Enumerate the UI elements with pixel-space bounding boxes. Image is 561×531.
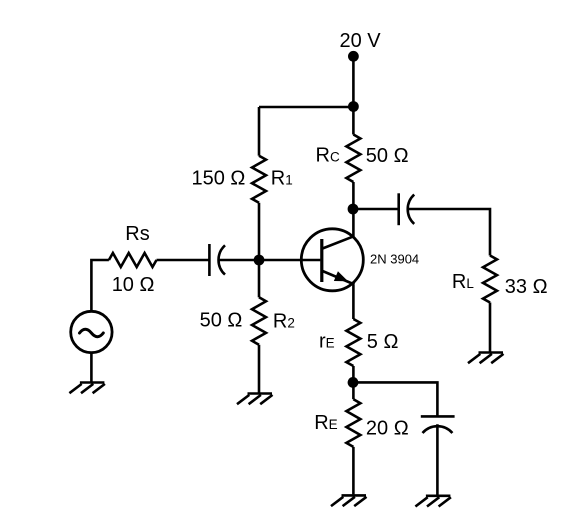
capacitor input coupling bbox=[209, 244, 225, 276]
resistor Rs bbox=[109, 253, 157, 267]
wire emitter node to bypass capacitor bbox=[353, 382, 437, 416]
ground bypass bbox=[415, 496, 451, 507]
source VS AC signal generator bbox=[71, 311, 112, 352]
svg-text:20 V: 20 V bbox=[340, 30, 382, 52]
wire collector node to output capacitor bbox=[353, 208, 398, 211]
wire input capacitor to base node bbox=[218, 259, 259, 262]
wire source bottom lead bbox=[90, 353, 93, 382]
resistor R2 bbox=[252, 297, 266, 345]
wire RC top lead bbox=[352, 107, 355, 135]
wire RC bottom to collector bbox=[352, 182, 355, 238]
resistor rE bbox=[346, 319, 360, 366]
svg-text:20 Ω: 20 Ω bbox=[366, 418, 409, 440]
svg-text:33 Ω: 33 Ω bbox=[505, 276, 548, 298]
node supply terminal bbox=[348, 51, 359, 62]
resistor RC bbox=[346, 135, 360, 183]
wire Rs to input capacitor bbox=[157, 259, 210, 262]
node top rail junction bbox=[348, 101, 359, 112]
svg-text:150 Ω: 150 Ω bbox=[192, 168, 246, 190]
wire base node to R2 bbox=[258, 260, 261, 297]
wire source to Rs bbox=[91, 260, 109, 312]
wire R1 bottom to base node bbox=[258, 203, 261, 260]
svg-text:10 Ω: 10 Ω bbox=[112, 274, 155, 296]
resistor RE bbox=[346, 399, 360, 447]
ground source bbox=[69, 383, 105, 394]
svg-text:2N 3904: 2N 3904 bbox=[370, 252, 419, 267]
wire base node to transistor base bbox=[259, 259, 320, 262]
wire output capacitor to RL bbox=[407, 209, 490, 256]
node base junction bbox=[254, 255, 265, 266]
ground load bbox=[468, 353, 504, 364]
transistor Q1 2N3904 bbox=[301, 229, 363, 291]
node collector output junction bbox=[348, 204, 359, 215]
capacitor emitter bypass bbox=[421, 416, 455, 433]
wire RE bottom lead bbox=[352, 447, 355, 495]
resistor R1 bbox=[252, 156, 266, 203]
wire emitter to rE bbox=[352, 285, 355, 320]
svg-text:50 Ω: 50 Ω bbox=[200, 310, 243, 332]
wire R2 bottom lead bbox=[258, 345, 261, 393]
capacitor output coupling bbox=[399, 193, 415, 225]
wire supply to top rail bbox=[352, 56, 355, 106]
node emitter junction bbox=[348, 377, 359, 388]
ground R2 bbox=[237, 394, 273, 405]
wire rE to RE bbox=[352, 366, 355, 399]
resistor RL bbox=[483, 256, 497, 303]
wire top rail horizontal bbox=[259, 106, 353, 109]
wire RL bottom lead bbox=[489, 303, 492, 352]
svg-text:Rs: Rs bbox=[125, 223, 149, 245]
ground RE bbox=[331, 495, 367, 506]
wire bypass capacitor bottom lead bbox=[436, 424, 439, 495]
svg-text:50 Ω: 50 Ω bbox=[366, 145, 409, 167]
svg-text:5 Ω: 5 Ω bbox=[367, 331, 399, 353]
wire R1 top lead bbox=[258, 107, 261, 156]
